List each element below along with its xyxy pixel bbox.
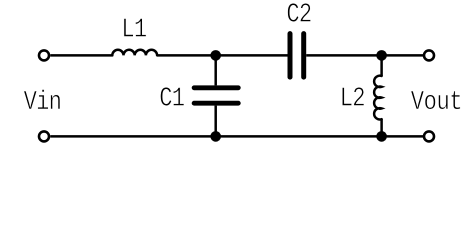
capacitor C2 [290, 34, 304, 78]
svg-text:C2: C2 [286, 0, 311, 30]
capacitor C1 [194, 55, 238, 136]
svg-text:L1: L1 [121, 15, 146, 46]
inductor L1 [112, 50, 157, 56]
wire top-right: C2 to TR terminal [306, 54, 423, 57]
node: top of C1 [210, 50, 221, 61]
terminal TL (Vin top) [39, 50, 49, 60]
wire top-mid: L1 to C2 [157, 54, 287, 57]
inductor L2 [374, 55, 381, 136]
node: bottom of L2 [376, 131, 387, 142]
terminal TR (Vout top) [424, 50, 434, 60]
terminal BL (Vin bottom) [39, 131, 49, 141]
svg-text:Vin: Vin [24, 87, 61, 118]
svg-text:Vout: Vout [411, 87, 462, 118]
wire top-left: TL terminal to L1 [50, 54, 112, 57]
wire bottom [50, 135, 423, 138]
svg-text:L2: L2 [340, 83, 365, 114]
node: bottom of C1 [210, 131, 221, 142]
svg-text:C1: C1 [159, 83, 184, 114]
node: top of L2 [376, 50, 387, 61]
terminal BR (Vout bottom) [424, 131, 434, 141]
